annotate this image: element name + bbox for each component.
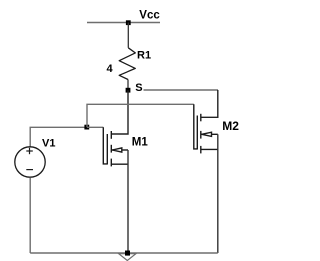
svg-text:M2: M2 (222, 119, 239, 133)
M2 gate plate (196, 116, 198, 150)
M1 gate plate (106, 134, 108, 165)
M1 channel source segment (110, 159, 112, 167)
voltage source V1 circle (15, 147, 45, 177)
wire V1 bottom to ground rail (29, 178, 31, 254)
M1 channel drain segment (110, 131, 112, 139)
wire V1 plus to gate node (up and right) (30, 127, 87, 147)
svg-text:M1: M1 (132, 137, 149, 149)
M2 channel body segment (200, 131, 202, 139)
M2 body stub with arrow (202, 133, 218, 135)
svg-text:S: S (135, 82, 142, 94)
transistor M1 (103, 127, 128, 166)
wire R1 bottom to node S (127, 80, 129, 91)
wire M2 drain lead vertical (201, 90, 218, 117)
svg-text:V1: V1 (42, 137, 55, 149)
wire node S down to M1 drain (111, 90, 128, 134)
M2 body arrowhead (202, 132, 212, 136)
M2 source stub (201, 148, 218, 150)
M1 channel body segment (110, 145, 112, 153)
wire M1 source down to ground rail (127, 150, 129, 253)
V1 minus sign (26, 169, 33, 171)
ground dot redrawn above triangle (125, 251, 130, 256)
M1 gate lead (103, 127, 107, 164)
Vcc rail wire (87, 22, 160, 24)
M1 body arrowhead (112, 148, 122, 152)
svg-text:R1: R1 (137, 50, 151, 62)
M1 body stub with arrow (112, 149, 128, 151)
junction dot gate node (84, 125, 89, 130)
wire gate node up and right to M2 gate (87, 104, 194, 127)
node S junction dot (126, 88, 131, 93)
svg-text:4: 4 (107, 63, 114, 75)
M2 gate lead (194, 104, 198, 149)
svg-text:Vcc: Vcc (139, 10, 160, 22)
wire Vcc dot to R1 top (127, 23, 129, 48)
ground symbol triangle (119, 254, 136, 261)
M1 source stub (111, 163, 128, 165)
transistor M2 (194, 104, 218, 153)
wire gate node to M1 gate (87, 126, 103, 128)
ground rail wire (30, 252, 218, 254)
resistor R1 zigzag (119, 48, 135, 80)
ground junction dot (125, 251, 130, 256)
wire node S to M2 drain (horizontal) (144, 89, 219, 91)
V1 plus sign (26, 150, 33, 152)
junction dot at Vcc (126, 20, 131, 25)
wire M2 source down to ground rail (217, 134, 219, 253)
M2 channel source segment (200, 146, 202, 154)
M2 channel drain segment (200, 114, 202, 122)
